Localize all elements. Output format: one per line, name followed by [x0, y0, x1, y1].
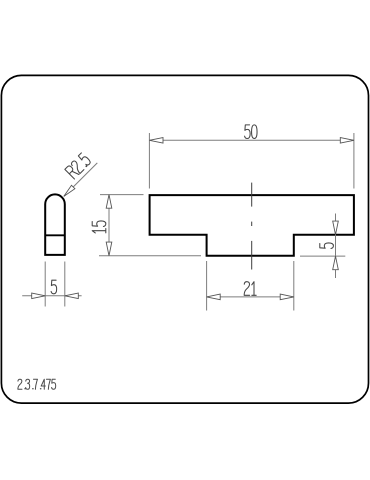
dim 15 extension line bottom [99, 255, 201, 257]
leader line R2.5 [64, 163, 98, 197]
dim text 50 [245, 125, 257, 139]
dim 5 right dimension line [335, 214, 337, 279]
dim 15 dimension line [108, 195, 110, 256]
dim 5 extension line left [44, 262, 46, 307]
dim 5 right arrow bottom [333, 256, 339, 270]
dim 15 extension line top [100, 194, 144, 196]
dim 15 arrow top [106, 195, 112, 209]
dim 21 dimension line [207, 296, 294, 298]
dim 5 arrow right [65, 293, 79, 299]
dim 50 arrow left [149, 138, 163, 144]
main view outline [150, 195, 354, 256]
side view outline [45, 194, 65, 254]
dim 5 arrow left [32, 293, 46, 299]
dim 21 extension line left [206, 261, 208, 311]
dim text 5 right [320, 243, 334, 249]
dim 5 right extension line bottom [300, 255, 345, 257]
part number 2.3.7.475 [18, 379, 56, 389]
dim 50 extension line right [353, 133, 355, 189]
dim 50 extension line left [148, 133, 150, 189]
dim 50 dimension line [149, 139, 354, 141]
dim text 5 [51, 280, 57, 294]
centerline [251, 183, 253, 270]
label R2.5 [65, 152, 92, 179]
dim text 15 [92, 221, 106, 233]
dim 21 extension line right [293, 261, 295, 311]
dim 5 right arrow top [333, 221, 339, 235]
dim 21 arrow left [207, 294, 221, 300]
dim 5 extension line right [64, 262, 66, 307]
dim 5 dimension line [22, 295, 81, 297]
drawing frame [1, 75, 368, 403]
side view divider line [45, 234, 65, 236]
dim 21 arrow right [280, 294, 294, 300]
dim 15 arrow bottom [106, 242, 112, 256]
dim text 21 [244, 282, 256, 296]
leader arrowhead [64, 185, 75, 196]
dim 50 arrow right [340, 138, 354, 144]
